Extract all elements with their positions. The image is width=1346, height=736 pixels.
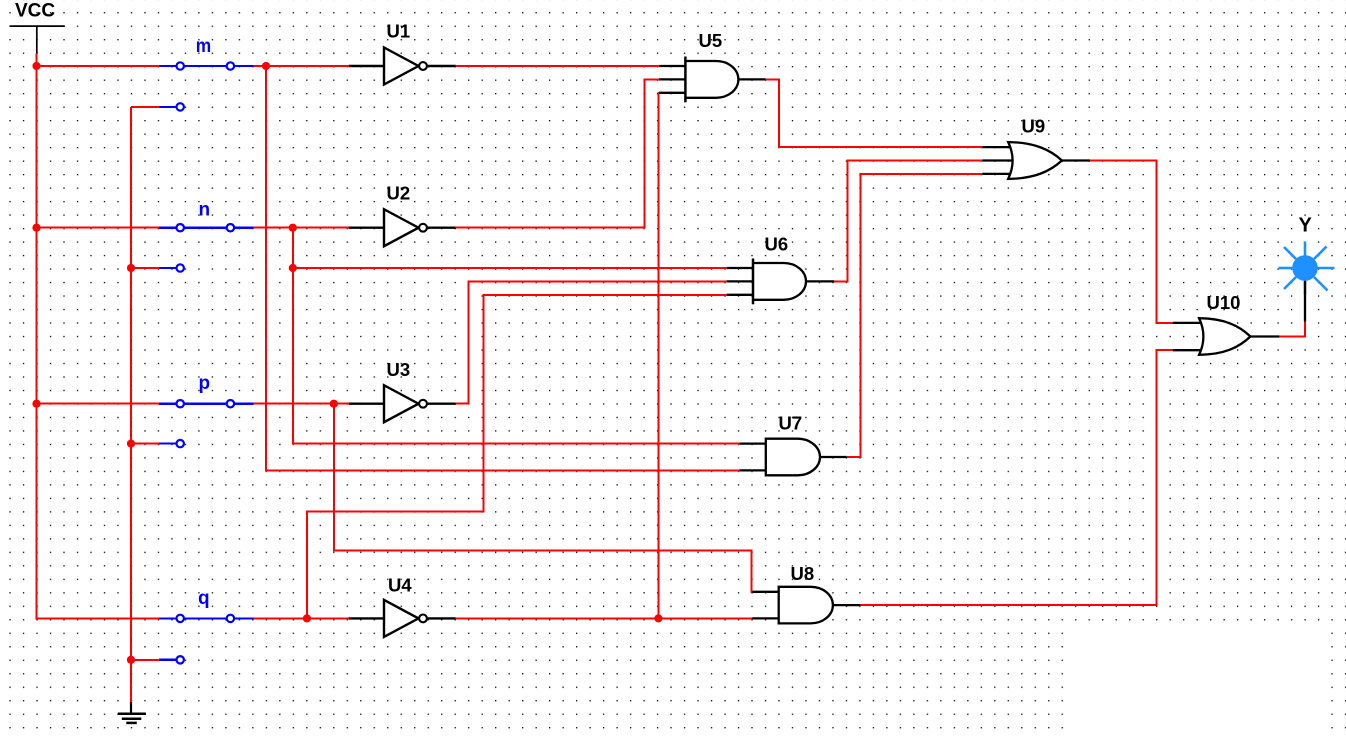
switch m (159, 62, 253, 110)
wire switch n to U2 input (253, 227, 348, 229)
ground (118, 702, 146, 723)
wire q branch up to U6 bottom input (307, 295, 727, 619)
node VCC-p (32, 400, 40, 408)
inverter U1 (349, 48, 456, 85)
node ground-p throw (127, 440, 135, 448)
wire U8 output to U10 bottom input (860, 350, 1172, 605)
wire n throw stub (131, 267, 160, 269)
svg-text:U10: U10 (1207, 292, 1241, 313)
svg-text:U1: U1 (387, 21, 411, 42)
wire n branch down to U6 junction (292, 228, 294, 268)
wire U9 output to U10 top input (1090, 161, 1173, 323)
wire U10 output to lamp Y (1279, 322, 1305, 337)
inverter U3 (349, 385, 456, 422)
node VCC-m (32, 62, 40, 70)
svg-text:p: p (199, 373, 211, 394)
svg-text:q: q (198, 588, 210, 609)
and-gate U6 (3-input) (727, 259, 835, 305)
svg-text:U3: U3 (387, 359, 411, 380)
switch n (159, 224, 253, 272)
node ground-q throw (127, 656, 135, 664)
or-gate U10 (2-input) (1173, 318, 1280, 355)
node VCC-n (32, 224, 40, 232)
node q-U5 branch (654, 614, 662, 622)
wire U4 output to U8 bottom input (456, 617, 753, 619)
node n branch (289, 224, 297, 232)
switch q (159, 615, 253, 664)
node m branch (262, 62, 270, 70)
or-gate U9 (3-input) (982, 142, 1090, 179)
wire n branch down to U7 top input (293, 268, 740, 444)
and-gate U5 (3-input) (659, 57, 766, 103)
wire ground rail vertical (130, 107, 132, 702)
wire p branch down to U8 top input (334, 404, 753, 592)
wire U5 bottom input from q line (657, 93, 660, 619)
wire VCC rail vertical with bottom run to switch q (37, 53, 160, 618)
svg-text:U7: U7 (779, 412, 803, 433)
wire switch q to U4 input (253, 617, 348, 619)
svg-text:U8: U8 (791, 563, 815, 584)
node q branch (303, 614, 311, 622)
svg-text:m: m (196, 36, 211, 57)
svg-text:U9: U9 (1022, 115, 1046, 136)
wire m row VCC to switch m (37, 65, 160, 67)
wire U5 output to U9 top input (766, 79, 983, 147)
wire U7 output to U9 bottom input (847, 174, 982, 457)
wire n row VCC to switch n (37, 227, 160, 229)
node n-U6 branch (289, 264, 297, 272)
and-gate U7 (2-input) (740, 439, 847, 476)
svg-text:U5: U5 (699, 30, 723, 51)
wire p throw stub (131, 443, 160, 445)
svg-text:U2: U2 (387, 183, 411, 204)
wire switch m to U1 input (253, 65, 348, 67)
wire U3 output up to U6 middle input (456, 281, 727, 403)
svg-text:VCC: VCC (15, 0, 55, 21)
inverter U2 (349, 209, 456, 246)
inverter U4 (349, 600, 456, 637)
power symbol VCC (10, 26, 65, 53)
wire U1 output to U5 top input (456, 65, 659, 67)
and-gate U8 (2-input) (752, 587, 860, 624)
svg-text:Y: Y (1299, 214, 1313, 236)
wire m throw stub (131, 106, 160, 108)
svg-text:n: n (199, 199, 211, 220)
wire m branch down to U7 bottom input (266, 66, 740, 470)
lamp Y (1279, 242, 1335, 322)
svg-text:U4: U4 (388, 575, 412, 596)
wire switch p to U3 input (253, 403, 348, 405)
node ground-n throw (127, 264, 135, 272)
wire U2 output up to U5 middle input (456, 79, 659, 227)
switch p (159, 400, 253, 447)
wire p row VCC to switch p (37, 403, 160, 405)
node p branch (330, 400, 338, 408)
wire n branch to U6 top input (293, 267, 727, 269)
wire U6 output to U9 middle input (834, 161, 982, 282)
svg-text:U6: U6 (765, 233, 789, 254)
wire q throw stub (131, 659, 160, 661)
